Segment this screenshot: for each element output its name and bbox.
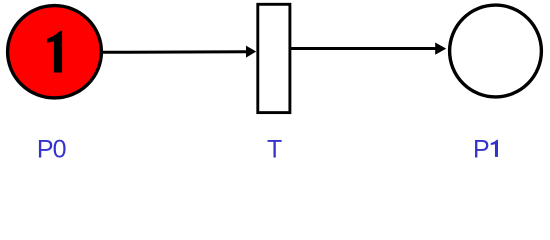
arrowhead into T <box>246 46 256 58</box>
svg-text:T: T <box>267 135 282 163</box>
label P1 digit 1 <box>491 140 498 157</box>
place P1 <box>450 5 542 97</box>
wire arc P0 to T <box>102 50 247 54</box>
arrowhead into P1 <box>435 43 446 55</box>
svg-text:P: P <box>473 135 490 163</box>
token count 1 <box>47 31 62 73</box>
wire arc T to P1 <box>290 47 436 50</box>
svg-text:P0: P0 <box>37 135 66 163</box>
place P0 <box>8 6 102 98</box>
transition T <box>258 4 290 112</box>
